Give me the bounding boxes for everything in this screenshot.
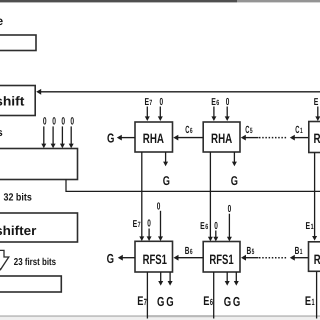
label E1 input RFS3: [306, 221, 315, 232]
svg-text:s: s: [0, 127, 3, 139]
wire C1 carry arrow out of RHA3: [290, 125, 309, 141]
svg-text:0: 0: [147, 218, 151, 229]
bottom crop bar: [0, 315, 320, 320]
svg-text:6: 6: [216, 98, 219, 107]
label E6 bottom: [203, 294, 213, 308]
svg-text:0: 0: [70, 115, 74, 127]
svg-text:6: 6: [190, 126, 193, 135]
box B1 top-left register: [0, 35, 36, 51]
wire RHA3 sum drop to RFS3: [312, 153, 317, 241]
label E7 input RHA1: [145, 97, 164, 108]
svg-text:6: 6: [190, 247, 193, 256]
box RHA1: [135, 122, 173, 152]
svg-text:RFS1: RFS1: [314, 252, 320, 267]
svg-text:0: 0: [228, 204, 232, 215]
wire long arrow into shift box: [36, 89, 320, 95]
svg-text:6: 6: [210, 297, 213, 307]
svg-text:RFS1: RFS1: [143, 252, 168, 267]
top crop bar dark: [0, 0, 237, 2]
box bottom-left result: [0, 276, 61, 292]
label E7 and 0 inputs RFS1: [133, 218, 152, 241]
box shifter: [0, 213, 78, 242]
svg-text:1: 1: [312, 297, 315, 307]
box RFS3 partial: [309, 242, 320, 271]
svg-text:7: 7: [144, 297, 147, 307]
svg-text:0: 0: [43, 115, 47, 127]
svg-text:RHA: RHA: [314, 131, 320, 146]
svg-text:5: 5: [252, 247, 255, 256]
wire E1 arrow into RHA3: [315, 107, 320, 122]
wire C6 carry arrow RHA2 to RHA1: [173, 125, 203, 141]
wire register output to bus: [66, 180, 320, 192]
label 0 upper input RFS1: [157, 201, 163, 241]
wire E6 and 0 arrows into RHA2: [211, 107, 229, 122]
svg-text:G: G: [107, 251, 114, 266]
svg-text:E: E: [200, 221, 205, 232]
wire E7 and 0 arrows into RHA1: [145, 107, 163, 122]
wire RFS2 E6 drop to bottom: [213, 272, 215, 319]
node zero inputs 0 0 0 0: [43, 115, 74, 127]
box RHA3 partial: [309, 122, 320, 153]
svg-text:shift: shift: [0, 93, 25, 108]
svg-text:32 bits: 32 bits: [4, 193, 32, 204]
label E6 and 0 inputs RFS2: [200, 221, 218, 242]
wire RHA2 sum drop to RFS2: [208, 152, 213, 241]
wire RFS1 G G output arrows: [158, 272, 172, 286]
svg-text:G: G: [163, 173, 170, 188]
svg-text:G: G: [233, 294, 240, 309]
label E1 bottom: [305, 294, 315, 308]
svg-text:7: 7: [149, 98, 152, 107]
svg-text:E: E: [306, 221, 311, 232]
label 0 upper input RFS2: [227, 204, 232, 241]
svg-text:G: G: [157, 294, 164, 309]
svg-text:RHA: RHA: [143, 131, 164, 146]
svg-text:RFS1: RFS1: [209, 252, 234, 267]
svg-text:RHA: RHA: [211, 131, 232, 146]
box RFS1 second: [203, 242, 240, 273]
box RHA2: [203, 122, 240, 152]
wire RFS1 E7 drop to bottom: [146, 272, 148, 319]
svg-text:E: E: [305, 294, 311, 308]
svg-text:C: C: [295, 125, 299, 136]
svg-text:0: 0: [157, 201, 161, 212]
wire zero arrows into register: [41, 126, 73, 148]
wire RFS2 G G output arrows: [225, 272, 239, 286]
svg-text:shifter: shifter: [0, 223, 36, 238]
label E7 bottom: [137, 294, 147, 308]
label E6 input RHA2: [211, 97, 229, 108]
wire RFS3 E1 drop to bottom: [316, 272, 318, 319]
svg-text:E: E: [203, 294, 209, 308]
svg-text:G: G: [107, 131, 114, 146]
svg-text:G: G: [231, 173, 238, 188]
box 32-bit register: [0, 149, 78, 180]
top crop bar light: [237, 0, 320, 2]
wire G borrow-out arrow left of RFS1: [107, 251, 135, 266]
svg-text:G: G: [224, 294, 231, 309]
wire G carry-out arrow left of RHA1: [107, 131, 135, 146]
wire RHA1 sum drop to RFS1: [139, 152, 144, 241]
wire B5 borrow arrow dotted into RFS2: [241, 246, 288, 260]
wire RHA2 G output arrow: [231, 152, 238, 188]
svg-text:0: 0: [52, 115, 56, 127]
wire RHA1 G output arrow: [163, 152, 170, 188]
svg-text:G: G: [166, 294, 173, 309]
svg-text:0: 0: [61, 115, 65, 127]
svg-text:23 first bits: 23 first bits: [14, 257, 57, 268]
block arrow down (cut at left): [0, 250, 9, 269]
svg-text:e: e: [0, 14, 4, 28]
label G G outputs RFS1: [157, 294, 174, 309]
wire B1 borrow arrow out of RFS3: [290, 246, 309, 260]
svg-text:0: 0: [214, 221, 218, 232]
svg-text:E: E: [137, 294, 143, 308]
svg-text:6: 6: [205, 222, 208, 231]
box shift: [0, 86, 35, 116]
label G G outputs RFS2: [224, 294, 241, 309]
box RFS1 first: [135, 241, 173, 272]
wire C5 carry arrow dotted into RHA2: [241, 125, 288, 141]
wire B6 borrow arrow RFS2 to RFS1: [174, 246, 204, 260]
svg-text:7: 7: [138, 220, 141, 229]
